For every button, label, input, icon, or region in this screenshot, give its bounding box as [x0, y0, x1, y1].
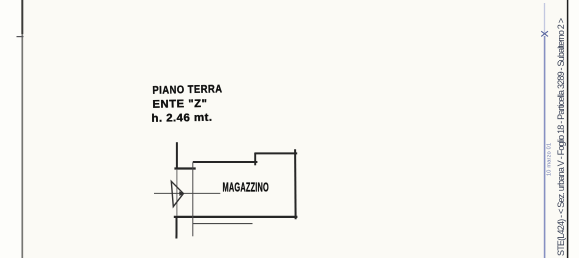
blue fold line upper faint segment: [544, 3, 546, 33]
svg-text:MAGAZZINO: MAGAZZINO: [223, 180, 270, 194]
left page-edge line: [21, 0, 23, 258]
svg-text:STE(L424) - < Sez. urbana V -: STE(L424) - < Sez. urbana V - Foglio 18 …: [556, 18, 566, 256]
right dark scan-edge line: [567, 0, 569, 258]
door jamb thin line right (long): [192, 162, 194, 236]
door access line: [154, 192, 220, 194]
svg-text:10 marzo 01: 10 marzo 01: [547, 143, 553, 176]
wall: top wall right section: [254, 152, 297, 154]
door jamb thin line left: [176, 169, 178, 216]
X mark on blue line: [541, 31, 548, 36]
wall: top wall left section: [193, 161, 258, 163]
svg-text:h. 2.46 mt.: h. 2.46 mt.: [151, 112, 212, 125]
svg-text:PIANO TERRA: PIANO TERRA: [152, 83, 222, 96]
wall: right wall: [294, 149, 297, 219]
door arrowhead: [179, 191, 184, 196]
wall: bottom wall: [174, 216, 298, 218]
wall: lower-left vertical below bottom wall: [175, 217, 177, 239]
wall: upper-left step horizontal: [174, 167, 195, 169]
wall: step vertical up: [254, 153, 256, 165]
wall: upper-left vertical: [176, 142, 178, 169]
svg-text:ENTE "Z": ENTE "Z": [152, 98, 207, 111]
left tick mark: [17, 36, 24, 38]
door access triangle: [171, 181, 183, 206]
thin horizontal line below bottom wall: [193, 223, 253, 225]
blue fold line main segment: [544, 36, 546, 258]
